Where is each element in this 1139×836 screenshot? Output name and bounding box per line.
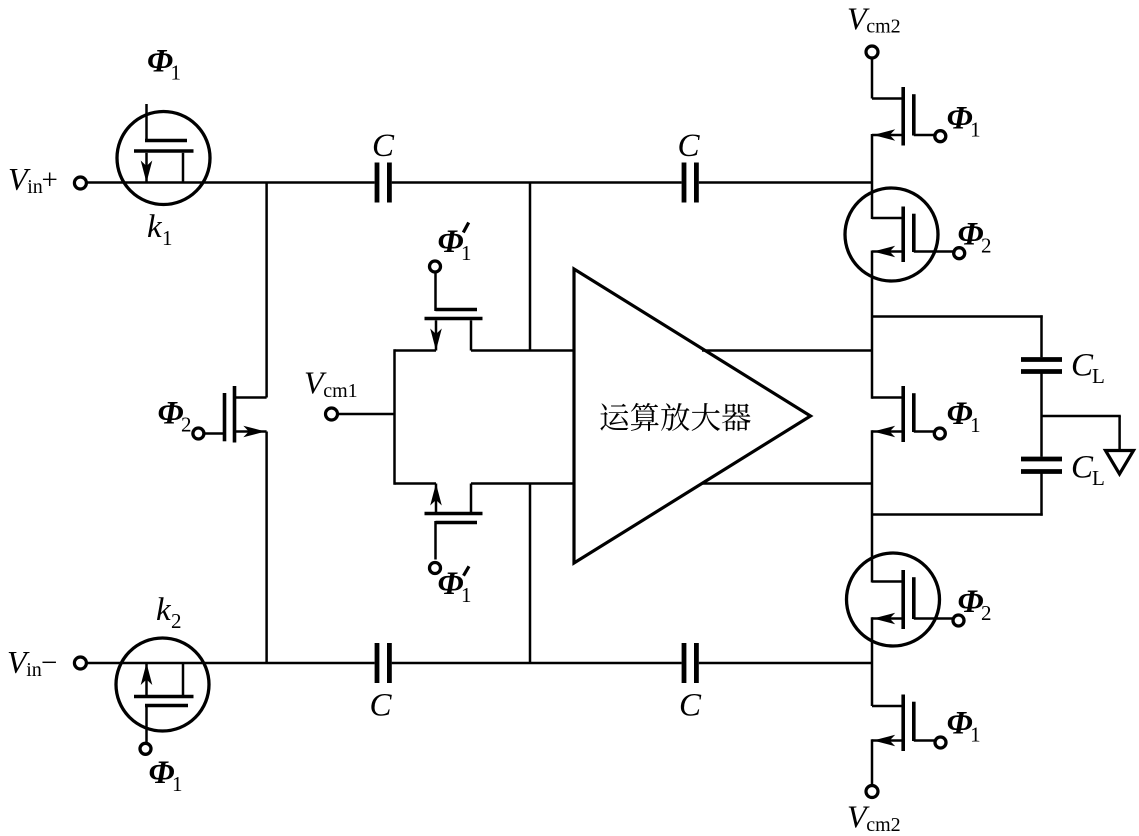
wire op-amp input bottom: [471, 482, 574, 485]
terminal Vcm1: [304, 365, 358, 420]
capacitor CL top: [1021, 348, 1105, 389]
svg-text:1: 1: [970, 723, 981, 747]
gate terminal of M5: [935, 737, 946, 748]
wire op-amp output top: [702, 349, 872, 352]
input terminal Vin+: [8, 161, 86, 198]
gate terminal of M4: [953, 615, 964, 626]
transistor M1 (Phi1, to Vcm2 top): [872, 87, 935, 146]
svg-text:Φ: Φ: [947, 706, 973, 742]
gate terminal of M1: [935, 131, 946, 142]
label Phi1 of M3: [947, 396, 981, 437]
svg-text:Φ: Φ: [438, 566, 464, 602]
capacitor C4 (bottom right): [679, 643, 702, 724]
svg-text:1: 1: [171, 61, 182, 85]
gate terminal of k2: [140, 743, 151, 754]
wire ground drop: [1118, 416, 1121, 449]
wire CL branch top: [872, 315, 1043, 357]
svg-text:C: C: [1071, 348, 1094, 384]
svg-text:Φ: Φ: [947, 101, 973, 137]
label Phi1' of M-Phi1p-bottom: [438, 566, 472, 607]
svg-text:cm2: cm2: [866, 814, 900, 836]
label k2: [156, 592, 182, 633]
wire CL mid node: [1042, 374, 1121, 457]
gate terminal of M3: [934, 428, 945, 439]
label Phi1 of M1: [947, 101, 981, 142]
wire bottom signal rail: [86, 662, 872, 665]
gate terminal of M-Phi2-left: [193, 428, 204, 439]
svg-text:Φ: Φ: [947, 396, 973, 432]
svg-text:in: in: [27, 176, 43, 198]
label Phi1 of k1: [147, 44, 181, 85]
wire op-amp output bottom: [702, 482, 872, 485]
svg-text:2: 2: [981, 601, 992, 625]
svg-text:k: k: [147, 209, 163, 245]
ground: [1106, 451, 1134, 475]
wire CL branch bottom: [872, 474, 1043, 516]
transistor k2 (Phi1 input switch): [116, 638, 209, 744]
svg-text:Φ: Φ: [147, 44, 173, 80]
label Phi1' of M-Phi1p-top: [438, 223, 472, 266]
svg-text:in: in: [26, 659, 42, 681]
wire mid vertical rail bottom: [529, 484, 532, 664]
transistor M3 (Phi1 mid switch): [872, 386, 935, 442]
transistor k1 (Phi1 input switch): [117, 104, 210, 205]
svg-text:1: 1: [970, 118, 981, 142]
label Phi2 of M2: [958, 217, 992, 258]
label k1: [147, 209, 173, 250]
transistor M-Phi1p-top (CM set switch): [425, 273, 483, 351]
transistor M4 (circled Phi2 output switch): [847, 553, 954, 646]
label Phi1 of k2: [149, 755, 183, 796]
svg-text:−: −: [41, 647, 57, 679]
transistor M2 (circled Phi2 output switch): [845, 188, 954, 281]
svg-text:Φ: Φ: [158, 396, 184, 432]
capacitor C1 (top left): [372, 128, 395, 203]
svg-text:C: C: [370, 688, 393, 724]
capacitor C3 (bottom left): [370, 643, 393, 724]
svg-text:1: 1: [172, 772, 183, 796]
svg-text:Φ: Φ: [438, 224, 464, 260]
svg-text:1: 1: [461, 241, 472, 265]
wire op-amp input top: [471, 349, 574, 352]
svg-text:2: 2: [181, 413, 192, 437]
wire right vertical rail: [871, 58, 874, 787]
svg-text:+: +: [42, 164, 58, 196]
svg-text:L: L: [1092, 466, 1105, 490]
svg-text:k: k: [156, 592, 172, 628]
svg-text:2: 2: [981, 234, 992, 258]
transistor M5 (Phi1, to Vcm2 bottom): [872, 695, 935, 752]
svg-text:1: 1: [461, 583, 472, 607]
gate terminal of M2: [954, 248, 965, 259]
input terminal Vin-: [7, 644, 86, 681]
svg-text:1: 1: [162, 226, 173, 250]
capacitor C2 (top right): [678, 128, 701, 203]
gate terminal of M-Phi1p-bottom: [430, 563, 441, 574]
svg-text:1: 1: [970, 413, 981, 437]
transistor M-Phi2-left (differencing switch): [204, 386, 267, 443]
wire left vertical rail upper: [265, 183, 268, 398]
svg-text:C: C: [679, 688, 702, 724]
svg-text:Φ: Φ: [958, 584, 984, 620]
svg-text:C: C: [372, 128, 395, 164]
wire top signal rail: [86, 181, 872, 184]
svg-text:2: 2: [171, 609, 182, 633]
wire Vcm1 lead: [338, 413, 395, 416]
op-amp U1 (fully differential OTA): [574, 269, 811, 563]
capacitor CL bottom: [1021, 450, 1105, 491]
terminal Vcm2 bottom: [847, 786, 901, 836]
label Phi1 of M5: [947, 706, 981, 747]
label Phi2 of M4: [958, 584, 992, 625]
wire mid vertical rail top: [529, 183, 532, 351]
svg-text:L: L: [1092, 364, 1105, 388]
svg-text:C: C: [1071, 450, 1094, 486]
svg-text:cm1: cm1: [323, 380, 357, 402]
svg-text:Φ: Φ: [149, 755, 175, 791]
wire left vertical rail lower: [265, 432, 268, 664]
svg-text:cm2: cm2: [866, 16, 900, 38]
terminal Vcm2 top: [847, 0, 901, 58]
gate terminal of M-Phi1p-top: [430, 261, 441, 272]
svg-text:Φ: Φ: [958, 217, 984, 253]
wire Vcm1 bracket: [395, 349, 437, 484]
svg-text:C: C: [678, 128, 701, 164]
label Phi2 of M-Phi2-left: [158, 396, 192, 437]
transistor M-Phi1p-bottom (CM set switch): [425, 484, 483, 560]
